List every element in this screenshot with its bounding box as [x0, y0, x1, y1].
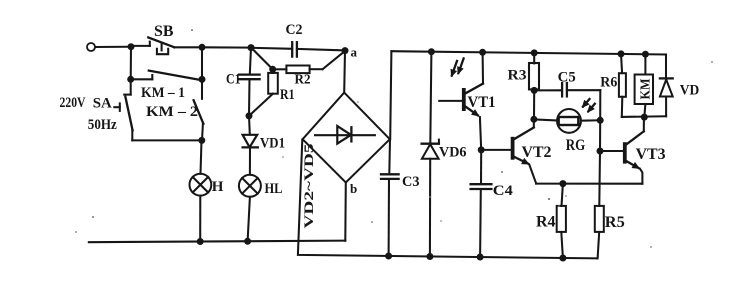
node junction [531, 87, 538, 94]
svg-text:C1: C1 [226, 72, 241, 88]
contact KM-1 [131, 71, 202, 101]
svg-text:C4: C4 [493, 183, 514, 199]
node junction [127, 76, 134, 83]
svg-text:C3: C3 [402, 174, 420, 190]
lamp HL [239, 175, 283, 197]
resistor R1 [249, 69, 294, 115]
svg-text:VD6: VD6 [439, 145, 467, 161]
node junction [618, 50, 625, 57]
svg-text:KM: KM [639, 79, 654, 100]
node junction [597, 148, 604, 155]
svg-text:C2: C2 [286, 22, 303, 38]
svg-text:R2: R2 [295, 72, 311, 87]
capacitor C1 [226, 48, 260, 116]
svg-text:VT3: VT3 [636, 146, 666, 163]
node junction [269, 66, 276, 73]
wire [199, 196, 201, 242]
node junction [641, 114, 648, 121]
capacitor C2 [251, 22, 345, 57]
svg-text:RG: RG [566, 137, 586, 154]
node a [342, 47, 349, 54]
switch SA [60, 79, 133, 140]
svg-text:SA: SA [93, 96, 113, 112]
wire [202, 46, 251, 48]
wire [201, 47, 203, 79]
relay coil KM [635, 54, 654, 117]
node junction [478, 146, 485, 153]
node junction [559, 255, 566, 262]
capacitor C4 [471, 150, 514, 257]
node junction [559, 180, 566, 187]
svg-text:R6: R6 [600, 74, 617, 90]
svg-text:HL: HL [265, 181, 283, 197]
node junction [248, 44, 255, 51]
wire [622, 115, 666, 118]
svg-text:KM – 1: KM – 1 [141, 85, 185, 101]
svg-text:C5: C5 [558, 69, 576, 85]
node junction [199, 76, 206, 83]
node junction [128, 43, 135, 50]
scan speckles [75, 29, 713, 248]
wire: emitter line [536, 183, 642, 185]
wire [251, 48, 272, 70]
svg-text:R3: R3 [508, 67, 527, 83]
svg-text:R1: R1 [280, 87, 295, 103]
svg-text:VD: VD [680, 82, 700, 98]
terminal: AC input [87, 43, 95, 51]
svg-text:a: a [351, 45, 358, 60]
resistor R4 [536, 184, 566, 258]
wire: AC bottom bus [89, 241, 346, 243]
svg-text:VT1: VT1 [468, 94, 496, 111]
resistor R2 [273, 51, 345, 87]
node junction [199, 44, 206, 51]
diode VD1 [243, 116, 285, 175]
capacitor C3 [381, 139, 420, 256]
node junction [198, 137, 205, 144]
svg-text:R5: R5 [605, 214, 625, 231]
svg-text:VD2~VD5: VD2~VD5 [301, 143, 316, 229]
photoresistor RG [534, 99, 600, 154]
svg-text:b: b [350, 181, 357, 196]
node junction [597, 117, 604, 124]
node junction [385, 253, 392, 260]
svg-text:220V: 220V [60, 95, 86, 111]
wire DC negative bus [298, 140, 598, 259]
wire [344, 183, 347, 241]
transistor VT2 [481, 119, 552, 183]
lamp H [190, 174, 224, 196]
node junction [244, 238, 251, 245]
node junction [642, 51, 649, 58]
transistor VT3 [600, 117, 666, 184]
wire [248, 197, 250, 242]
wire [201, 140, 202, 173]
node junction [197, 238, 204, 245]
node junction [246, 112, 253, 119]
resistor R3 [508, 53, 540, 119]
wire DC positive rail [391, 51, 666, 54]
wire [96, 46, 132, 48]
svg-text:VD1: VD1 [260, 135, 285, 151]
diode VD [660, 55, 699, 117]
wire [130, 47, 132, 80]
zener diode VD6 [422, 52, 467, 257]
node junction [479, 49, 486, 56]
wire [599, 120, 601, 151]
resistor R6 [600, 54, 626, 117]
svg-text:KM – 2: KM – 2 [146, 104, 198, 120]
pushbutton SB [131, 23, 202, 54]
svg-text:R4: R4 [536, 213, 556, 230]
capacitor C5 [534, 69, 600, 96]
node junction [426, 253, 433, 260]
wire [390, 51, 391, 139]
phototransistor VT1 [439, 52, 495, 150]
wire [132, 139, 202, 141]
svg-text:50Hz: 50Hz [88, 117, 118, 133]
resistor R5 [595, 151, 625, 258]
node junction [428, 48, 435, 55]
svg-text:H: H [212, 179, 224, 195]
node junction [530, 116, 537, 123]
bridge rectifier VD2~VD5 [301, 93, 390, 229]
wire [343, 51, 346, 93]
node junction [531, 49, 538, 56]
contact KM-2 [146, 79, 203, 140]
svg-text:SB: SB [154, 23, 174, 40]
wire [599, 90, 601, 120]
svg-text:VT2: VT2 [522, 144, 552, 161]
node junction [477, 254, 484, 261]
